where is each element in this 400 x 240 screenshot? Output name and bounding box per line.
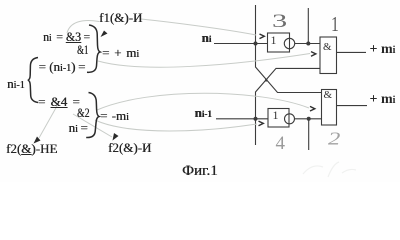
input arrowhead U3 [260,34,265,39]
annotation curve brace1 to U1 input [98,54,310,68]
designator 3 [272,11,287,33]
annotation curve brace3 to U2 input [97,93,309,110]
output label + mi lower [370,92,396,108]
wire ni vertical rail with cross branch to U2 [256,5,322,93]
formula result = + mi [102,45,139,61]
wire U1 output [337,51,367,53]
annotation line to f2-НЕ label [39,106,57,138]
U2 symbol & [324,89,333,101]
output label + mi upper [370,42,396,58]
U1 symbol & [323,41,332,53]
input arrowhead U1 [311,52,316,57]
formula result = -mi [100,108,129,124]
label ni-1 [7,76,25,92]
wire U3 output [295,43,320,45]
arrowhead near f1 label [101,31,108,38]
wire ni input [214,43,268,45]
designator 1 [331,12,339,37]
U4 symbol 1 [273,108,279,123]
designator 4 [276,133,286,155]
annotation curve f1 label to U3 input [141,19,256,35]
wire U3 output rail up [307,8,309,44]
and-gate U2 box [322,90,337,126]
faint bottom-right squiggle [303,162,356,177]
node U4 output junction [307,117,311,121]
arrowhead near f2-И label [113,133,119,141]
node ni-1 junction [254,117,258,121]
annotation curve brace3 to U4 input [95,120,257,131]
label f1(&)-И [99,10,142,26]
label f2(&)-НЕ [6,141,57,157]
annotation curve f1 label hook to &amp;3 [67,20,99,33]
input arrowhead U2 [310,106,315,111]
brace B1 closing [87,25,100,72]
inverter U3 box [268,33,290,52]
inverter U4 bubble [285,114,295,124]
caption Фиг.1 [182,163,218,180]
label f2(&)-И [108,140,151,156]
formula row = (ni-1) = [39,59,86,75]
wire U4 output [295,118,322,120]
wire ni-1 vertical rail with cross branch to U1 [256,68,321,145]
wire U2 output [337,105,368,107]
and-gate U1 box [320,37,337,74]
label ni at circuit input [202,30,212,46]
node U3 output junction [306,42,310,46]
wire ni-1 input [216,118,268,120]
brace B2 opening [28,58,38,103]
formula row ni = [69,120,88,136]
node wire crossing blob [265,79,268,82]
label ni-1 at circuit input [195,105,212,121]
formula row &2 [77,105,89,121]
formula row &1 [77,42,88,58]
designator 2 [328,129,340,150]
inverter U4 box [268,109,289,128]
formula row ni = &3 = [43,29,90,45]
U3 symbol 1 [271,33,277,48]
node ni junction [254,42,258,46]
arrowhead near f2-НЕ label [34,137,41,144]
annotation line to f2-И label [73,114,112,137]
wire U4 output rail down [308,119,310,150]
inverter U3 bubble [284,38,294,48]
input arrowhead U4 [259,121,264,126]
formula row = &4 = [38,94,80,110]
brace B3 closing [86,93,99,138]
